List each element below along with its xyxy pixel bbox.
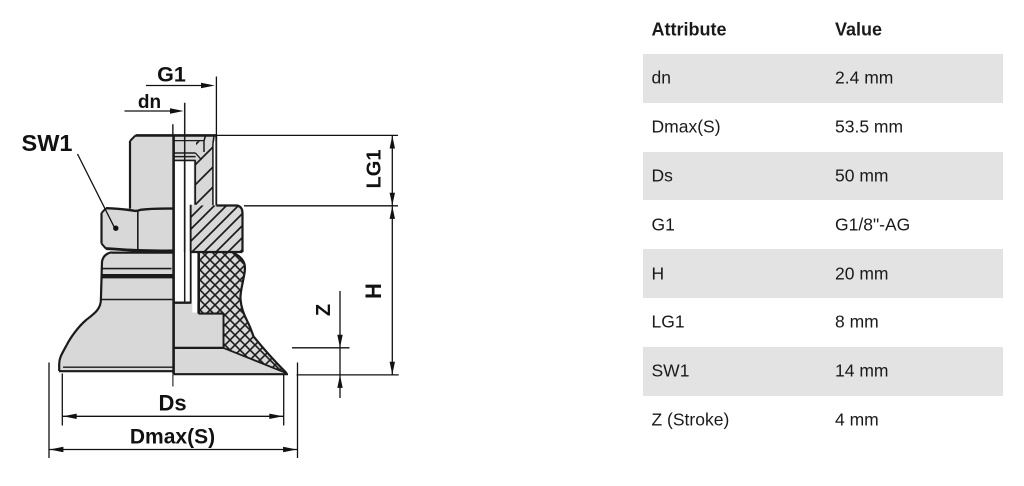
svg-text:Z: Z xyxy=(313,304,335,316)
svg-text:H: H xyxy=(361,283,386,299)
svg-text:LG1: LG1 xyxy=(364,150,386,189)
svg-text:Dmax(S): Dmax(S) xyxy=(130,426,215,449)
svg-text:G1: G1 xyxy=(157,62,186,86)
svg-text:SW1: SW1 xyxy=(22,130,73,156)
svg-text:dn: dn xyxy=(138,92,161,113)
svg-text:Ds: Ds xyxy=(158,391,186,416)
